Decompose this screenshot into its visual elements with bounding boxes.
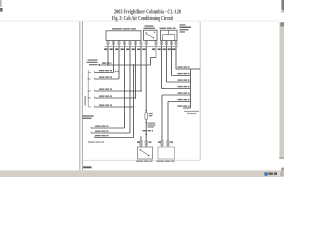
svg-text:Fig. 3: Cab Air Conditioning C: Fig. 3: Cab Air Conditioning Circuit	[112, 16, 173, 22]
svg-text:2003 Freightliner Columbia - C: 2003 Freightliner Columbia - CL-120	[114, 9, 181, 15]
